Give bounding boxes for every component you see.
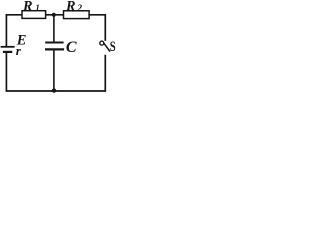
svg-text:C: C: [66, 39, 77, 56]
svg-text:1: 1: [35, 3, 40, 13]
svg-text:2: 2: [77, 3, 83, 13]
svg-text:R: R: [65, 0, 76, 14]
svg-text:R: R: [22, 0, 33, 15]
svg-text:S: S: [110, 38, 116, 54]
